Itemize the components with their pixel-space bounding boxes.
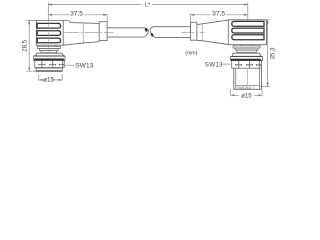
svg-text:28,5: 28,5 [22,39,28,51]
svg-text:(mm): (mm) [185,50,197,56]
svg-text:ø15: ø15 [241,93,252,100]
svg-text:L*: L* [145,2,151,8]
svg-text:35,3: 35,3 [269,47,276,60]
svg-text:SW13: SW13 [75,62,94,69]
svg-text:ø15: ø15 [43,77,54,84]
svg-text:37,5: 37,5 [70,11,83,18]
svg-text:SW13: SW13 [205,61,223,68]
svg-text:37,5: 37,5 [212,11,225,18]
